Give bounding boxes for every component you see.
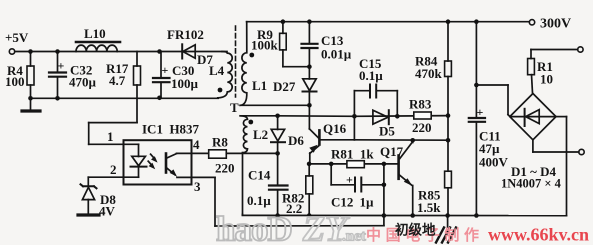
- svg-text:100: 100: [5, 74, 25, 89]
- svg-text:220: 220: [412, 120, 432, 135]
- svg-text:.net: .net: [342, 229, 366, 245]
- svg-text:100µ: 100µ: [171, 76, 199, 91]
- svg-text:L2: L2: [253, 127, 268, 142]
- svg-text:L1: L1: [252, 78, 267, 93]
- svg-text:470µ: 470µ: [69, 75, 97, 90]
- svg-text:470k: 470k: [415, 66, 443, 81]
- svg-text:www.66kv.cn: www.66kv.cn: [488, 225, 589, 245]
- svg-text:+: +: [58, 59, 65, 73]
- svg-text:4: 4: [193, 137, 200, 152]
- svg-text:10: 10: [540, 72, 553, 87]
- svg-text:Q16: Q16: [323, 121, 347, 136]
- svg-text:1µ: 1µ: [360, 195, 375, 210]
- svg-text:IC1 H837: IC1 H837: [142, 122, 200, 137]
- svg-text:0.1µ: 0.1µ: [359, 68, 383, 83]
- svg-text:3: 3: [194, 179, 201, 194]
- svg-text:220: 220: [215, 161, 235, 176]
- svg-text:haoD: haoD: [216, 210, 292, 245]
- svg-text:+: +: [162, 63, 169, 77]
- svg-text:FR102: FR102: [167, 27, 204, 42]
- svg-text:D6: D6: [288, 133, 304, 148]
- svg-text:1: 1: [107, 129, 114, 144]
- svg-text:T: T: [230, 100, 239, 115]
- svg-text:0.1µ: 0.1µ: [247, 193, 271, 208]
- svg-text:R81 1k: R81 1k: [331, 147, 374, 162]
- svg-text:初级地: 初级地: [395, 222, 436, 238]
- svg-text:+: +: [477, 105, 484, 119]
- svg-text:300V: 300V: [540, 17, 571, 32]
- svg-text:C14: C14: [248, 168, 271, 183]
- svg-text:100k: 100k: [251, 38, 279, 53]
- svg-text:+5V: +5V: [5, 30, 29, 45]
- svg-text:L4: L4: [209, 63, 225, 78]
- svg-text:+: +: [346, 173, 353, 187]
- svg-text:Q17: Q17: [380, 144, 404, 159]
- svg-text:0.01µ: 0.01µ: [321, 47, 352, 62]
- svg-text:1.5k: 1.5k: [417, 200, 441, 215]
- svg-text:D27: D27: [273, 79, 296, 94]
- svg-text:C12: C12: [331, 195, 353, 210]
- svg-text:R8: R8: [212, 135, 228, 150]
- svg-text:2: 2: [110, 162, 117, 177]
- svg-text:4V: 4V: [99, 204, 116, 219]
- svg-text:R83: R83: [409, 97, 432, 112]
- svg-text:D5: D5: [379, 124, 395, 139]
- svg-text:1N4007 × 4: 1N4007 × 4: [501, 177, 562, 191]
- svg-text:400V: 400V: [479, 155, 509, 170]
- svg-text:L10: L10: [84, 26, 106, 41]
- svg-text:4.7: 4.7: [109, 73, 126, 88]
